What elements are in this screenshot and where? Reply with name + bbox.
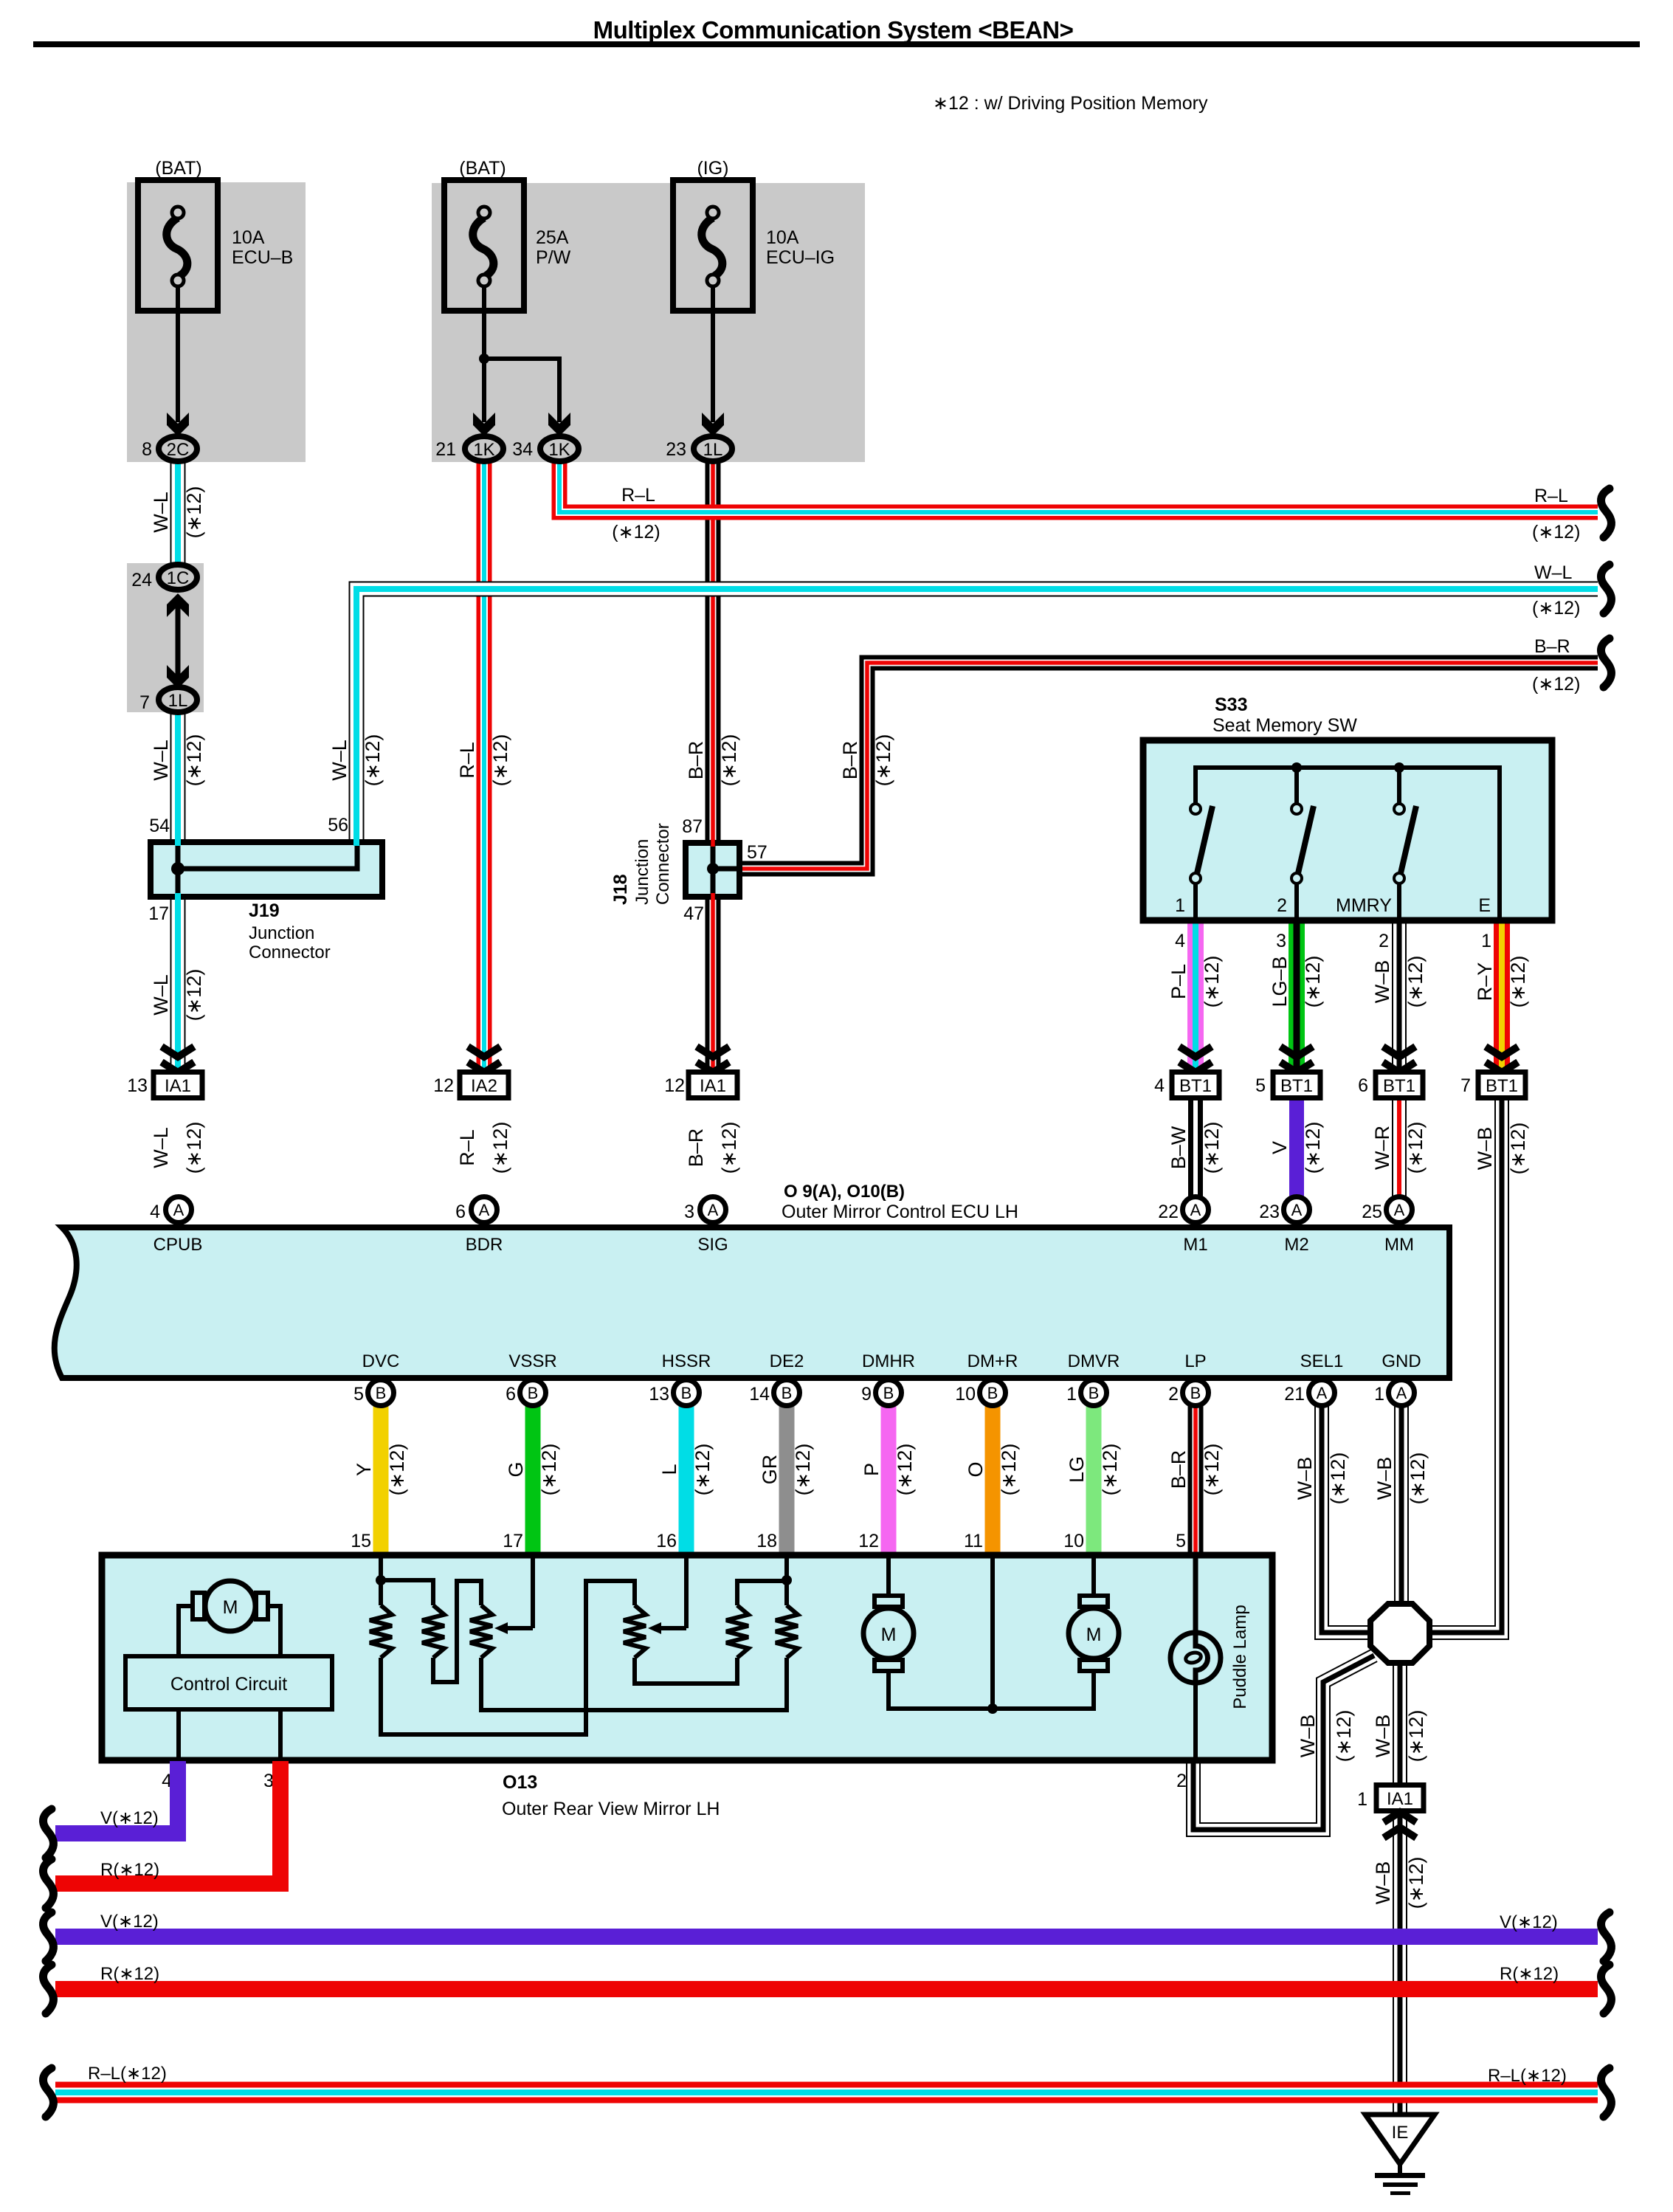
control circuit outputs to pins 4 and 3	[176, 1709, 181, 1761]
svg-text:Outer Mirror Control ECU LH: Outer Mirror Control ECU LH	[782, 1202, 1018, 1222]
svg-text:25: 25	[1362, 1202, 1382, 1222]
svg-text:16: 16	[656, 1531, 677, 1551]
wire from fuse ECU-B to connector 2C	[176, 286, 180, 422]
svg-text:1K: 1K	[548, 440, 570, 460]
svg-text:DM+R: DM+R	[967, 1351, 1018, 1371]
grey fuse-block background middle	[432, 183, 865, 462]
svg-text:M: M	[223, 1597, 238, 1618]
ECU pin 23 M2	[1284, 1197, 1310, 1223]
ECU pin 3 SIG	[700, 1197, 726, 1223]
svg-text:O: O	[965, 1461, 987, 1477]
fuse 10A ECU-IG	[673, 180, 753, 311]
svg-text:5: 5	[1176, 1531, 1186, 1551]
svg-text:(∗12): (∗12)	[1407, 1453, 1429, 1505]
sensor wiring dot to Rb	[381, 1580, 433, 1605]
svg-text:P: P	[860, 1463, 883, 1476]
wire from fuse ECU-IG to connector 1L(23)	[711, 286, 715, 422]
svg-text:1: 1	[1175, 895, 1185, 916]
svg-text:1: 1	[1066, 1384, 1077, 1405]
svg-text:3: 3	[684, 1202, 694, 1222]
sensor feed GR pin 18	[784, 1556, 789, 1605]
svg-text:Puddle Lamp: Puddle Lamp	[1230, 1605, 1250, 1709]
svg-text:2: 2	[1277, 895, 1287, 916]
svg-text:M: M	[881, 1624, 897, 1645]
svg-text:4: 4	[1154, 1075, 1165, 1096]
connector 1C pin 24	[159, 565, 197, 590]
svg-text:R–L: R–L	[456, 742, 478, 779]
svg-text:B–R: B–R	[1534, 636, 1570, 657]
chevron out of IA1(1)	[1384, 1827, 1416, 1838]
svg-text:(∗12): (∗12)	[1327, 1453, 1349, 1505]
B-R stripe crossing J18 borders	[711, 839, 715, 847]
svg-text:(∗12): (∗12)	[872, 734, 894, 787]
svg-text:12: 12	[664, 1075, 685, 1096]
svg-text:A: A	[1190, 1201, 1201, 1219]
svg-text:B: B	[1089, 1384, 1100, 1402]
svg-text:B: B	[987, 1384, 998, 1402]
svg-text:(∗12): (∗12)	[386, 1444, 408, 1496]
svg-text:BT1: BT1	[1179, 1076, 1212, 1096]
wire W-B from ECU GND to junction	[1394, 1405, 1409, 1608]
svg-text:Connector: Connector	[653, 823, 673, 905]
svg-text:IA1: IA1	[165, 1076, 191, 1096]
mirror motor M3 horizontal	[1091, 1556, 1096, 1596]
svg-text:6: 6	[506, 1384, 516, 1405]
svg-text:W–L: W–L	[150, 1127, 172, 1168]
svg-text:B: B	[782, 1384, 793, 1402]
svg-text:57: 57	[747, 842, 767, 863]
wire G from ECU VSSR to mirror pin 17	[525, 1405, 541, 1556]
wire B-W from BT1(4) to ECU pin 22 M1	[1188, 1098, 1203, 1197]
svg-text:A: A	[1291, 1201, 1303, 1219]
chevron into BT1(7)	[1486, 1047, 1518, 1057]
svg-text:(∗12): (∗12)	[1302, 1122, 1324, 1174]
svg-text:Control Circuit: Control Circuit	[170, 1674, 287, 1695]
svg-text:7: 7	[1460, 1075, 1471, 1096]
wire GR from ECU DE2 to mirror pin 18	[779, 1405, 795, 1556]
wire W-B from mirror pin 2 to junction	[1193, 1655, 1374, 1830]
svg-text:A: A	[1317, 1384, 1328, 1402]
svg-text:(∗12): (∗12)	[1099, 1444, 1121, 1496]
svg-text:5: 5	[353, 1384, 364, 1405]
sensor resistor R6	[776, 1605, 798, 1658]
svg-text:DVC: DVC	[362, 1351, 400, 1371]
svg-text:J19: J19	[249, 900, 280, 921]
chevron into IA2(12)	[468, 1047, 500, 1057]
connector 1L pin 23	[694, 436, 732, 461]
J19 internal bus	[176, 842, 181, 897]
wire R-L long horizontal	[55, 2082, 1598, 2104]
svg-text:18: 18	[756, 1531, 777, 1551]
svg-text:17: 17	[503, 1531, 523, 1551]
svg-text:R(∗12): R(∗12)	[100, 1860, 159, 1880]
svg-text:10A: 10A	[766, 227, 799, 248]
wire B-R from ECU LP to mirror pin 5	[1188, 1405, 1204, 1556]
svg-text:87: 87	[682, 816, 703, 837]
O9/O10 Outer Mirror Control ECU LH box	[55, 1227, 1449, 1378]
svg-text:BT1: BT1	[1383, 1076, 1415, 1096]
svg-text:ECU–B: ECU–B	[232, 247, 293, 268]
title underline rule	[33, 41, 1640, 47]
connector 1K pin 21	[465, 436, 503, 461]
curl V long left	[43, 1912, 53, 1961]
svg-text:5: 5	[1255, 1075, 1266, 1096]
feed arrow into 1L(23)	[702, 413, 724, 436]
mirror motor M2 vertical	[886, 1556, 891, 1596]
wire break curl R-L right	[1601, 489, 1611, 537]
svg-text:(∗12): (∗12)	[362, 734, 384, 787]
ECU pin 4 CPUB	[166, 1197, 192, 1223]
connector BT1 pin 6	[1376, 1072, 1423, 1098]
svg-text:W–L: W–L	[1534, 562, 1573, 583]
chevron into IA1(13)	[162, 1047, 194, 1057]
connector BT1 pin 5	[1273, 1072, 1320, 1098]
ECU pin 9 DMHR	[876, 1380, 902, 1406]
svg-text:B–R: B–R	[685, 741, 707, 780]
grey relay-block background (1C/1L)	[127, 563, 204, 712]
svg-text:22: 22	[1158, 1202, 1179, 1222]
wire W-L horizontal from right edge down to J19 pin 56	[356, 589, 1598, 844]
puddle lamp	[1193, 1556, 1198, 1647]
svg-text:(∗12): (∗12)	[1404, 1122, 1427, 1174]
svg-text:(∗12): (∗12)	[1201, 1444, 1223, 1496]
wiper arrow from G pin 17 into Rc	[531, 1556, 535, 1628]
svg-text:B: B	[528, 1384, 539, 1402]
wire B-R from J18 pin 57 to right edge	[739, 663, 1598, 869]
svg-text:2: 2	[1168, 1384, 1179, 1405]
svg-text:W–B: W–B	[1373, 1457, 1396, 1500]
chevron into BT1(6)	[1383, 1047, 1415, 1057]
sensor wiring R5 top to GR dot	[737, 1581, 787, 1605]
svg-text:M: M	[1086, 1624, 1102, 1645]
svg-text:(∗12): (∗12)	[1507, 956, 1529, 1008]
ECU pin 13 HSSR	[674, 1380, 700, 1406]
wire P-L from S33 pin 1 to BT1(4)	[1187, 921, 1204, 1072]
svg-text:1K: 1K	[473, 440, 494, 460]
feed arrow into 1K(21)	[473, 413, 495, 436]
chevron into IA1(12)	[697, 1047, 729, 1057]
svg-text:S33: S33	[1215, 695, 1247, 715]
wire LG from ECU DMVR to mirror pin 10	[1086, 1405, 1102, 1556]
svg-text:∗12 : w/ Driving Position Memo: ∗12 : w/ Driving Position Memory	[933, 93, 1208, 114]
svg-text:BT1: BT1	[1486, 1076, 1518, 1096]
svg-text:ECU–IG: ECU–IG	[766, 247, 835, 268]
svg-text:M1: M1	[1183, 1235, 1207, 1255]
sensor potentiometer R4	[624, 1605, 646, 1658]
svg-text:21: 21	[435, 439, 456, 460]
svg-text:R–Y: R–Y	[1474, 962, 1496, 1002]
svg-text:B–W: B–W	[1167, 1126, 1190, 1169]
svg-text:(∗12): (∗12)	[1532, 598, 1580, 619]
svg-text:IA2: IA2	[471, 1076, 497, 1096]
connector IA2 pin 12	[460, 1072, 508, 1098]
svg-text:(∗12): (∗12)	[792, 1444, 814, 1496]
svg-text:1: 1	[1374, 1384, 1384, 1405]
svg-text:3: 3	[1276, 931, 1286, 951]
svg-text:R–L(∗12): R–L(∗12)	[88, 2064, 167, 2084]
svg-text:(∗12): (∗12)	[1405, 1710, 1427, 1763]
J19 internal junction dot	[171, 862, 184, 875]
svg-text:LG: LG	[1066, 1456, 1088, 1483]
svg-text:4: 4	[1175, 931, 1185, 951]
svg-text:BDR: BDR	[466, 1235, 503, 1255]
ECU pin 21 SEL1	[1309, 1380, 1335, 1406]
svg-text:(∗12): (∗12)	[1405, 1857, 1427, 1909]
svg-text:(∗12): (∗12)	[718, 1122, 740, 1174]
curl R upper left	[43, 1859, 53, 1908]
ECU pin 1 GND	[1389, 1380, 1415, 1406]
svg-text:B–R: B–R	[839, 741, 861, 780]
svg-text:B: B	[883, 1384, 894, 1402]
svg-text:HSSR: HSSR	[662, 1351, 711, 1371]
svg-text:A: A	[173, 1201, 184, 1219]
svg-text:LG–B: LG–B	[1269, 956, 1291, 1007]
mirror sensor feed Y pin 15	[379, 1556, 383, 1605]
svg-text:6: 6	[455, 1202, 466, 1222]
svg-text:MM: MM	[1384, 1235, 1414, 1255]
fuse 10A ECU-B	[138, 180, 218, 311]
motor M1 wiring to control circuit	[179, 1606, 195, 1656]
svg-text:10A: 10A	[232, 227, 265, 248]
svg-text:GND: GND	[1381, 1351, 1421, 1371]
svg-text:W–B: W–B	[1294, 1457, 1316, 1500]
W-L stripe crossing J19 borders	[175, 838, 181, 846]
curl V long right	[1601, 1912, 1611, 1961]
svg-text:13: 13	[649, 1384, 669, 1405]
svg-text:B: B	[1190, 1384, 1201, 1402]
sensor wiring Rc bottom to R6 bottom	[481, 1658, 787, 1710]
svg-text:24: 24	[131, 570, 152, 590]
chevron into BT1(5)	[1280, 1047, 1313, 1057]
wire W-B from S33 MMRY to BT1(6)	[1392, 921, 1407, 1072]
svg-text:DE2: DE2	[770, 1351, 804, 1371]
sensor wiring R4 bottom to R5 bottom	[635, 1658, 737, 1684]
connector BT1 pin 4	[1172, 1072, 1219, 1098]
svg-text:A: A	[1396, 1384, 1407, 1402]
svg-text:IE: IE	[1392, 2123, 1409, 2143]
svg-text:(∗12): (∗12)	[183, 969, 205, 1021]
junction node octagon	[1370, 1604, 1429, 1663]
svg-text:W–B: W–B	[1372, 1715, 1394, 1758]
S33 switch 1	[1190, 804, 1201, 814]
svg-text:(∗12): (∗12)	[998, 1444, 1020, 1496]
svg-text:34: 34	[512, 439, 533, 460]
svg-text:V(∗12): V(∗12)	[1500, 1912, 1558, 1932]
wire R-L from connector 1K(21) down to IA2	[477, 462, 492, 1072]
svg-text:(∗12): (∗12)	[1333, 1710, 1355, 1763]
curl R long left	[43, 1965, 53, 2013]
svg-text:(IG): (IG)	[697, 158, 728, 179]
svg-text:(∗12): (∗12)	[894, 1444, 916, 1496]
svg-text:(∗12): (∗12)	[1507, 1123, 1529, 1175]
wire L from ECU HSSR to mirror pin 16	[679, 1405, 694, 1556]
svg-text:J18: J18	[610, 874, 631, 905]
wire R-L branch from 1K(34) to right edge	[559, 462, 1598, 512]
svg-text:DMVR: DMVR	[1068, 1351, 1120, 1371]
svg-text:W–L: W–L	[150, 492, 172, 533]
ECU pin 5 DVC	[368, 1380, 394, 1406]
fuse 25A P/W	[444, 180, 524, 311]
svg-text:R–L(∗12): R–L(∗12)	[1488, 2066, 1567, 2086]
connector IA1 pin 12	[689, 1072, 737, 1098]
connector 1K pin 34	[540, 436, 579, 461]
svg-text:O13: O13	[503, 1772, 537, 1793]
svg-text:GR: GR	[759, 1455, 781, 1485]
wire P from ECU DMHR to mirror pin 12	[881, 1405, 897, 1556]
connector IA1 pin 13	[153, 1072, 202, 1098]
svg-text:O 9(A), O10(B): O 9(A), O10(B)	[784, 1182, 905, 1202]
svg-text:(∗12): (∗12)	[1532, 522, 1580, 542]
wire B-R from connector 1L(23) down through J18 to IA1	[706, 462, 721, 1072]
wire Y from ECU DVC to mirror pin 15	[373, 1405, 389, 1556]
S33 internal bus	[1196, 768, 1500, 920]
svg-text:3: 3	[263, 1771, 274, 1791]
ECU pin 10 DM+R	[980, 1380, 1006, 1406]
svg-text:IA1: IA1	[700, 1076, 726, 1096]
svg-text:(∗12): (∗12)	[1201, 956, 1223, 1008]
svg-text:(BAT): (BAT)	[155, 158, 201, 179]
sensor wiring Rb bottom to Rc top	[433, 1581, 481, 1682]
svg-text:Seat Memory SW: Seat Memory SW	[1213, 715, 1357, 736]
wire R long horizontal	[55, 1981, 1598, 1997]
sensor resistor R5	[726, 1605, 748, 1658]
wire W-B from junction down to IA1(1)	[1393, 1659, 1407, 1785]
svg-text:A: A	[479, 1201, 490, 1219]
svg-text:W–L: W–L	[328, 740, 351, 781]
svg-text:(∗12): (∗12)	[1201, 1122, 1223, 1174]
svg-text:A: A	[1394, 1201, 1405, 1219]
wire from fuse P/W splitting to 1K(21) and 1K(34)	[482, 286, 486, 422]
sensor resistor Ra	[370, 1605, 392, 1658]
svg-text:2: 2	[1379, 931, 1389, 951]
wire break curl W-L right	[1601, 565, 1611, 613]
svg-text:W–R: W–R	[1371, 1126, 1393, 1170]
svg-text:Junction: Junction	[249, 923, 314, 943]
svg-text:V: V	[1269, 1141, 1291, 1154]
svg-text:11: 11	[964, 1531, 983, 1551]
wire W-B from IA1(1) down to ground IE	[1393, 1810, 1407, 2115]
wire W-L from connector 2C down to IA1	[170, 462, 186, 563]
svg-text:2C: 2C	[167, 440, 190, 460]
svg-text:8: 8	[142, 439, 152, 460]
wire R from mirror pin 3 to left edge	[55, 1761, 280, 1884]
svg-text:17: 17	[148, 903, 169, 924]
svg-text:MMRY: MMRY	[1336, 895, 1392, 916]
connector BT1 pin 7	[1478, 1072, 1525, 1098]
svg-text:L: L	[658, 1464, 680, 1475]
curl V upper left	[43, 1809, 53, 1858]
ECU pin 2 LP	[1183, 1380, 1209, 1406]
chevron into BT1(4)	[1179, 1047, 1212, 1057]
svg-text:6: 6	[1358, 1075, 1368, 1096]
svg-text:VSSR: VSSR	[508, 1351, 556, 1371]
J18 internal bus	[711, 843, 716, 897]
svg-text:12: 12	[433, 1075, 454, 1096]
S33 switch 3 MMRY	[1394, 804, 1404, 814]
svg-text:Junction: Junction	[632, 839, 652, 905]
svg-text:CPUB: CPUB	[153, 1235, 203, 1255]
svg-text:(∗12): (∗12)	[489, 1122, 511, 1174]
wire O from ECU DM+R to mirror pin 11	[985, 1405, 1001, 1556]
junction dot on P/W feed	[479, 354, 489, 364]
svg-text:Y: Y	[353, 1463, 375, 1476]
svg-text:R(∗12): R(∗12)	[100, 1964, 159, 1984]
svg-text:G: G	[505, 1461, 527, 1477]
svg-text:13: 13	[127, 1075, 148, 1096]
svg-text:A: A	[708, 1201, 719, 1219]
feed arrow into 2C	[167, 413, 189, 436]
wiper arrow from L pin 16 into R4	[684, 1556, 689, 1628]
svg-text:10: 10	[955, 1384, 976, 1405]
sensor potentiometer Rc	[470, 1605, 492, 1658]
wire W-B from ECU SEL1 to junction	[1322, 1405, 1371, 1633]
feed arrow into 1K(34)	[548, 413, 570, 436]
svg-text:W–L: W–L	[150, 740, 172, 781]
svg-text:(∗12): (∗12)	[1532, 674, 1580, 695]
svg-text:25A: 25A	[536, 227, 569, 248]
svg-text:(∗12): (∗12)	[691, 1444, 714, 1496]
sensor resistor Rb	[422, 1605, 444, 1658]
svg-text:(BAT): (BAT)	[459, 158, 506, 179]
wire R-Y from S33 pin E to BT1(7)	[1494, 921, 1510, 1072]
svg-text:4: 4	[150, 1202, 160, 1222]
svg-text:W–B: W–B	[1474, 1127, 1496, 1171]
S33 Seat Memory SW box	[1143, 740, 1552, 920]
connector 1L pin 7	[159, 687, 197, 712]
svg-text:W–B: W–B	[1372, 1861, 1394, 1905]
connector IA1 pin 1	[1376, 1785, 1424, 1811]
svg-text:B–R: B–R	[1167, 1450, 1190, 1489]
svg-text:DMHR: DMHR	[862, 1351, 915, 1371]
svg-text:1L: 1L	[168, 691, 188, 711]
svg-text:23: 23	[1259, 1202, 1280, 1222]
svg-text:(∗12): (∗12)	[1302, 956, 1324, 1008]
svg-text:W–B: W–B	[1371, 960, 1393, 1004]
svg-text:(∗12): (∗12)	[183, 734, 205, 787]
junction connector J18 box	[686, 843, 739, 897]
svg-text:(∗12): (∗12)	[612, 522, 660, 542]
svg-text:P/W: P/W	[536, 247, 571, 268]
svg-text:B–R: B–R	[685, 1129, 707, 1168]
svg-text:IA1: IA1	[1387, 1789, 1413, 1809]
ECU pin 14 DE2	[774, 1380, 800, 1406]
svg-text:7: 7	[139, 692, 150, 713]
O13 Outer Rear View Mirror LH box	[102, 1555, 1272, 1760]
svg-text:Multiplex Communication System: Multiplex Communication System <BEAN>	[593, 16, 1074, 44]
wire V from mirror pin 4 to left edge	[55, 1761, 178, 1833]
svg-text:BT1: BT1	[1280, 1076, 1313, 1096]
svg-text:21: 21	[1284, 1384, 1305, 1405]
S33 bus dots	[1291, 762, 1302, 773]
svg-text:9: 9	[861, 1384, 872, 1405]
ECU pin 22 M1	[1183, 1197, 1209, 1223]
svg-text:M2: M2	[1284, 1235, 1308, 1255]
svg-text:(∗12): (∗12)	[183, 1122, 205, 1174]
motor common return to O pin 11	[889, 1671, 1094, 1709]
svg-text:P–L: P–L	[1167, 964, 1190, 999]
sensor wiring Ra bottom to R4 top	[381, 1581, 635, 1734]
svg-text:15: 15	[351, 1531, 371, 1551]
svg-text:10: 10	[1063, 1531, 1084, 1551]
svg-text:SEL1: SEL1	[1300, 1351, 1344, 1371]
svg-text:R–L: R–L	[1534, 486, 1568, 506]
curl R-L long left	[43, 2068, 53, 2117]
wire W-R from BT1(6) to ECU pin 25 MM	[1392, 1098, 1407, 1197]
svg-text:(∗12): (∗12)	[183, 486, 205, 539]
svg-text:1: 1	[1357, 1789, 1367, 1810]
svg-text:54: 54	[149, 816, 170, 836]
ECU pin 1 DMVR	[1081, 1380, 1107, 1406]
